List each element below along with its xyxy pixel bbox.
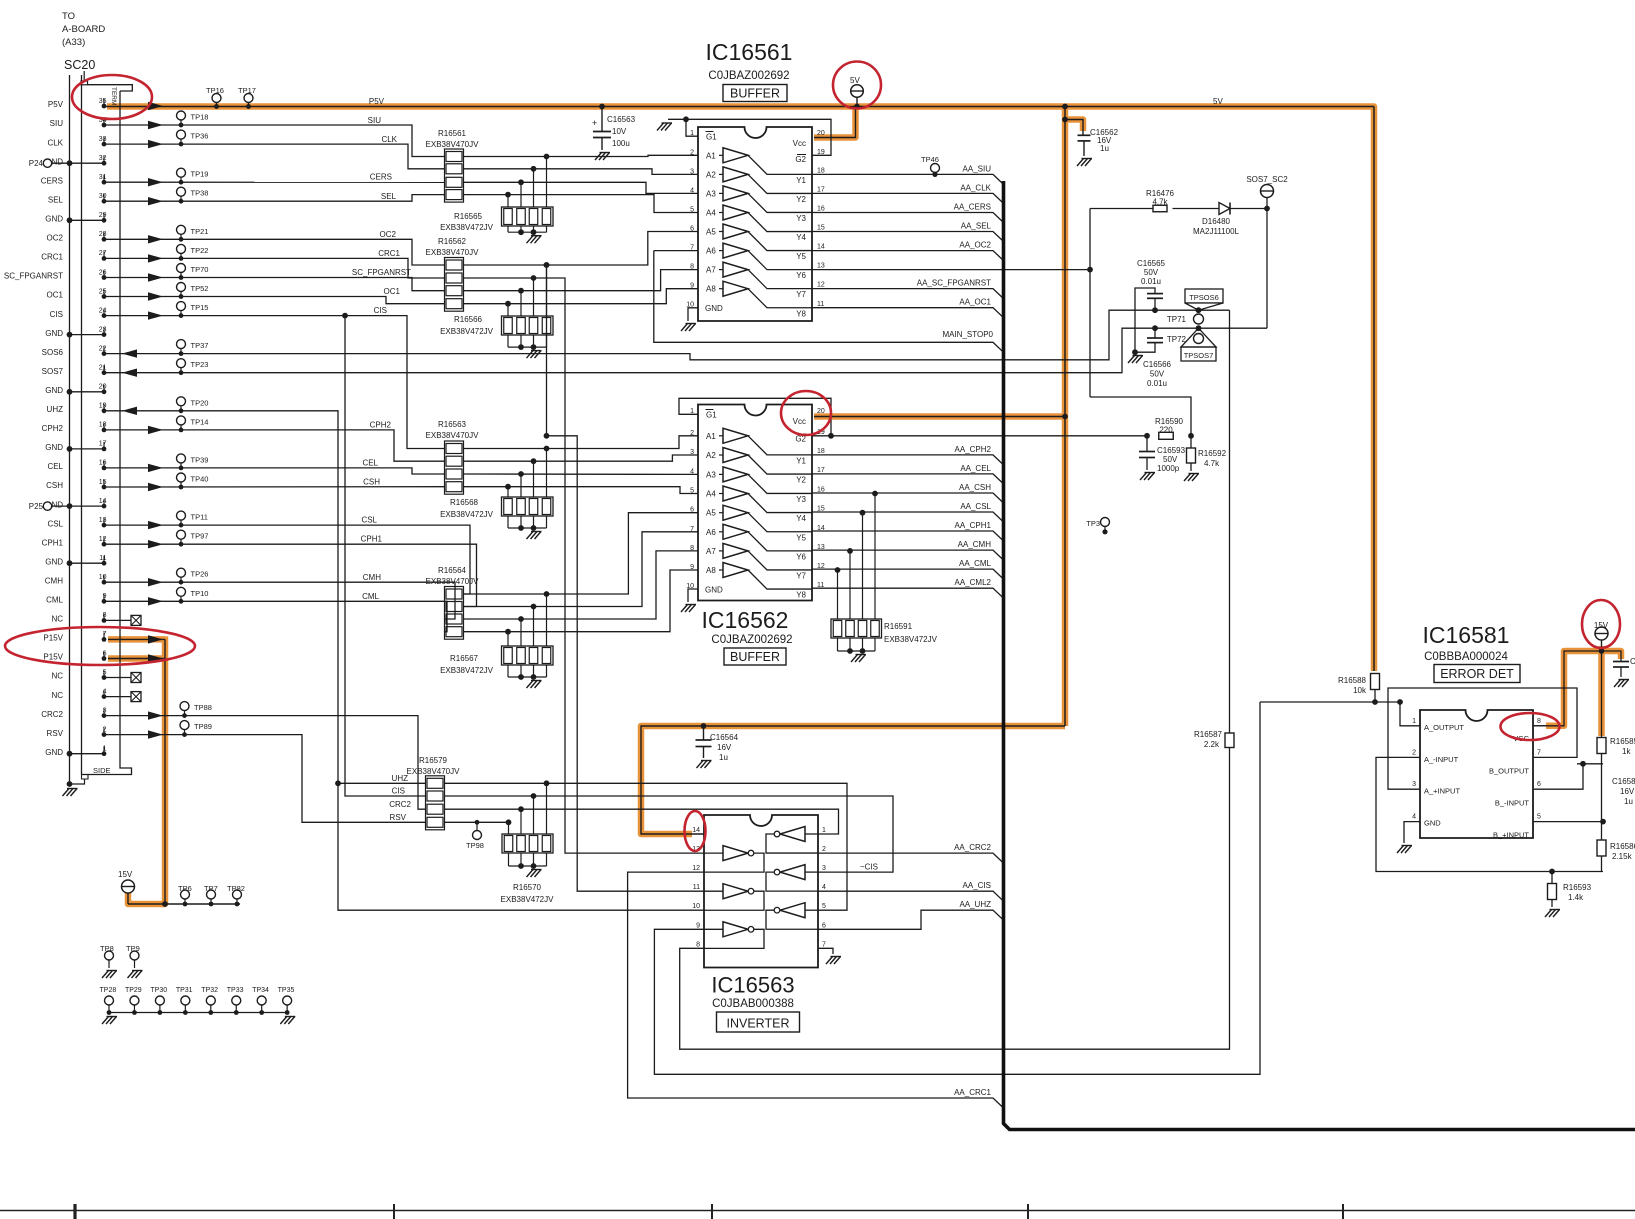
capacitor C16584 top right: [1602, 651, 1622, 662]
svg-text:TPSOS7: TPSOS7: [1184, 351, 1214, 360]
svg-text:26: 26: [99, 269, 107, 276]
svg-text:22: 22: [99, 345, 107, 352]
svg-text:12: 12: [692, 865, 700, 872]
svg-text:15: 15: [817, 225, 825, 232]
svg-text:AA_SC_FPGANRST: AA_SC_FPGANRST: [917, 279, 991, 288]
wire CPH1: [104, 544, 477, 606]
test point TP28: [105, 996, 114, 1005]
resistor R16586: [1601, 822, 1603, 840]
IC16563 pin7 ground: [818, 948, 833, 954]
svg-text:G1: G1: [706, 411, 717, 420]
test point TP72: [1194, 334, 1204, 344]
svg-text:8: 8: [696, 941, 700, 948]
svg-text:CML: CML: [362, 592, 379, 601]
svg-text:TP11: TP11: [191, 513, 208, 522]
svg-text:B_+INPUT: B_+INPUT: [1493, 831, 1529, 840]
arrow: [148, 292, 163, 300]
resistor network R16568: [505, 484, 511, 490]
svg-text:18: 18: [817, 448, 825, 455]
svg-text:Y6: Y6: [796, 271, 806, 280]
svg-text:Vcc: Vcc: [793, 417, 806, 426]
svg-text:TP21: TP21: [191, 227, 209, 236]
wire gnd bus tap: [70, 753, 105, 755]
wire CSL: [104, 525, 470, 594]
wire RSV: [104, 735, 426, 823]
resistor network R16567: [505, 629, 511, 635]
test point TP8: [105, 951, 114, 960]
wire inverter pin10 out: [335, 780, 341, 786]
test point TP34: [257, 996, 266, 1005]
svg-text:AA_CPH2: AA_CPH2: [955, 445, 992, 454]
wire CRC1: [104, 258, 445, 278]
wire gnd bus tap: [70, 448, 105, 450]
svg-text:CMH: CMH: [45, 576, 63, 585]
diode D16480: [1173, 208, 1220, 210]
test point TP15: [177, 302, 186, 311]
svg-text:1u: 1u: [719, 753, 728, 762]
svg-text:R16561: R16561: [438, 129, 467, 138]
svg-text:CPH1: CPH1: [361, 535, 383, 544]
svg-text:OC1: OC1: [47, 291, 64, 300]
svg-text:AA_CEL: AA_CEL: [960, 464, 991, 473]
svg-text:Y4: Y4: [796, 233, 806, 242]
wire B output row: [1577, 763, 1603, 765]
test point TP89: [180, 721, 189, 730]
svg-text:EXB38V472JV: EXB38V472JV: [440, 327, 494, 336]
test point TP36: [177, 130, 186, 139]
wire gnd bus tap: [70, 162, 105, 164]
svg-text:A3: A3: [706, 189, 716, 198]
svg-text:17: 17: [817, 467, 825, 474]
svg-text:GND: GND: [45, 557, 63, 566]
svg-text:A4: A4: [706, 209, 716, 218]
svg-text:A3: A3: [706, 470, 716, 479]
svg-text:A8: A8: [706, 566, 716, 575]
svg-text:R16566: R16566: [454, 315, 483, 324]
svg-text:SIU: SIU: [368, 116, 382, 125]
svg-text:TP9: TP9: [126, 944, 140, 953]
svg-text:C16565: C16565: [1137, 259, 1166, 268]
svg-text:7: 7: [822, 941, 826, 948]
NC termination: [104, 696, 131, 698]
connector P24: [43, 159, 51, 167]
svg-text:4: 4: [822, 884, 826, 891]
svg-text:AA_CRC1: AA_CRC1: [954, 1088, 991, 1097]
wire AA_SEL: [812, 232, 1004, 242]
svg-text:TP70: TP70: [191, 265, 209, 274]
arrow: [122, 349, 137, 357]
wire OC1: [104, 297, 445, 304]
ground R16567: [527, 681, 542, 689]
svg-text:4: 4: [690, 187, 694, 194]
svg-text:SC_FPGANRST: SC_FPGANRST: [352, 268, 411, 277]
svg-text:A6: A6: [706, 247, 716, 256]
svg-text:TP88: TP88: [194, 703, 212, 712]
arrow: [148, 140, 163, 148]
svg-text:TP89: TP89: [194, 722, 212, 731]
wire G2 to R16590: [831, 435, 1147, 437]
test point TP10: [177, 587, 186, 596]
svg-text:AA_CML2: AA_CML2: [955, 578, 992, 587]
arrow: [148, 464, 163, 472]
wire CRC2: [104, 716, 426, 810]
svg-text:TP18: TP18: [191, 113, 209, 122]
svg-text:RSV: RSV: [47, 729, 64, 738]
wire AA_OC2: [812, 251, 1004, 261]
svg-text:TP14: TP14: [191, 417, 209, 426]
svg-text:3: 3: [1412, 781, 1416, 788]
test point TP35: [283, 996, 292, 1005]
resistor R16590: [1144, 433, 1150, 439]
svg-text:SIU: SIU: [50, 119, 64, 128]
wire error det feedback line: [1260, 701, 1400, 703]
svg-text:5: 5: [1537, 814, 1541, 821]
svg-text:A2: A2: [706, 451, 716, 460]
svg-text:Y5: Y5: [796, 533, 806, 542]
wire CMH: [104, 582, 455, 619]
svg-text:28: 28: [99, 231, 107, 238]
svg-text:TP38: TP38: [191, 189, 209, 198]
svg-text:MAIN_STOP0: MAIN_STOP0: [942, 330, 993, 339]
wire to pin1: [1400, 702, 1420, 726]
svg-text:C0JBAZ002692: C0JBAZ002692: [711, 634, 792, 646]
wire gnd bus tap: [70, 505, 105, 507]
svg-text:32: 32: [99, 155, 107, 162]
svg-text:EXB38V470JV: EXB38V470JV: [426, 431, 480, 440]
svg-text:D16480: D16480: [1202, 217, 1231, 226]
svg-text:220: 220: [1159, 426, 1173, 435]
svg-text:Y8: Y8: [796, 591, 806, 600]
arrow: [148, 483, 163, 491]
test point TP82: [233, 890, 242, 899]
resistor network R16570: [506, 819, 512, 825]
svg-text:IC16563: IC16563: [711, 973, 794, 998]
svg-text:3: 3: [690, 449, 694, 456]
svg-text:R16592: R16592: [1198, 449, 1227, 458]
wire to IC16562 Vcc: [814, 416, 1065, 418]
svg-text:CEL: CEL: [362, 459, 378, 468]
wire AA_SC_FPGANRST: [812, 289, 1004, 299]
svg-text:SOS7_SC2: SOS7_SC2: [1246, 175, 1288, 184]
IC16563 inverters left column: [704, 852, 723, 854]
svg-text:0.01u: 0.01u: [1141, 277, 1161, 286]
wire SIU: [104, 125, 445, 157]
resistor R16593: [1549, 869, 1555, 875]
wire 15V rail: [128, 903, 240, 905]
IC16561 G1/G2 wiring: [686, 119, 698, 136]
svg-text:TP46: TP46: [921, 155, 939, 164]
wire MAIN_STOP0: [654, 250, 698, 252]
svg-text:AA_SEL: AA_SEL: [961, 222, 992, 231]
svg-text:GND: GND: [705, 586, 723, 595]
svg-text:B_OUTPUT: B_OUTPUT: [1489, 767, 1529, 776]
svg-text:8: 8: [1537, 718, 1541, 725]
wire AA_OC1: [812, 308, 1004, 318]
test point TP52: [177, 283, 186, 292]
svg-text:A1: A1: [706, 151, 716, 160]
svg-text:GND: GND: [45, 443, 63, 452]
svg-text:UHZ: UHZ: [47, 405, 64, 414]
svg-text:14: 14: [99, 498, 107, 505]
svg-text:SOS7: SOS7: [42, 367, 64, 376]
svg-text:4: 4: [1412, 814, 1416, 821]
capacitor C16562: [1082, 132, 1084, 136]
svg-text:3: 3: [822, 865, 826, 872]
power SOS7_SC2: [1264, 206, 1270, 212]
wire 5V to IC16561 Vcc highlight: [814, 107, 856, 138]
wire gnd bus tap: [70, 562, 105, 564]
test point TP37: [177, 340, 186, 349]
svg-text:8: 8: [690, 264, 694, 271]
resistor R16585: [1601, 651, 1603, 738]
svg-text:TP6: TP6: [178, 884, 192, 893]
wire CPH2: [104, 430, 445, 461]
svg-text:TERM: TERM: [110, 87, 117, 105]
svg-text:0.01u: 0.01u: [1147, 379, 1167, 388]
svg-text:CMH: CMH: [363, 573, 381, 582]
svg-text:CRC2: CRC2: [41, 710, 63, 719]
svg-text:1k: 1k: [1622, 747, 1631, 756]
resistor network R16565: [505, 192, 511, 198]
test point TP11: [177, 511, 186, 520]
wire AA_CSL: [812, 512, 1004, 522]
svg-text:A6: A6: [706, 528, 716, 537]
test point TP71: [1194, 314, 1204, 324]
svg-text:11: 11: [693, 884, 700, 891]
svg-text:10: 10: [99, 574, 107, 581]
svg-text:TP26: TP26: [191, 570, 209, 579]
svg-text:AA_CSH: AA_CSH: [959, 483, 991, 492]
svg-text:4: 4: [690, 468, 694, 475]
test point TP16: [212, 94, 221, 103]
frame bottom border: [0, 1210, 1635, 1212]
svg-text:Y3: Y3: [796, 495, 806, 504]
svg-text:CLK: CLK: [47, 138, 63, 147]
NC termination: [104, 619, 131, 621]
svg-text:EXB38V470JV: EXB38V470JV: [426, 577, 480, 586]
svg-text:EXB38V470JV: EXB38V470JV: [407, 767, 461, 776]
svg-text:AA_CML: AA_CML: [959, 559, 992, 568]
svg-text:15V: 15V: [118, 870, 133, 879]
svg-text:35: 35: [99, 98, 107, 105]
svg-text:A7: A7: [706, 547, 716, 556]
wire 5V rail: [104, 106, 1374, 108]
wire Y6 to R16476: [812, 269, 1090, 271]
IC16562 buffer triangles: [723, 428, 748, 443]
svg-text:AA_OC2: AA_OC2: [959, 241, 991, 250]
svg-text:TP71: TP71: [1167, 315, 1187, 324]
wire AA_CML2: [812, 588, 1004, 598]
svg-text:R16588: R16588: [1338, 676, 1367, 685]
IC16581 body: [1420, 710, 1533, 838]
svg-text:GND: GND: [1424, 819, 1441, 828]
test point TP14: [177, 416, 186, 425]
svg-text:13: 13: [99, 517, 107, 524]
test point TP21: [177, 225, 186, 234]
wire inverter pin8 to R16587: [680, 748, 1230, 1050]
svg-text:B_-INPUT: B_-INPUT: [1495, 799, 1530, 808]
NC termination: [104, 677, 131, 679]
wire 5V rail highlight: [107, 107, 1374, 672]
svg-text:6: 6: [690, 507, 694, 514]
svg-text:~CIS: ~CIS: [860, 863, 878, 872]
svg-text:TP7: TP7: [204, 884, 218, 893]
svg-text:CSH: CSH: [363, 478, 380, 487]
svg-text:2: 2: [690, 430, 694, 437]
svg-text:R16564: R16564: [438, 566, 467, 575]
svg-text:TP3: TP3: [1086, 519, 1100, 528]
wire pin4 GND: [1404, 822, 1420, 843]
svg-text:5: 5: [690, 207, 694, 214]
svg-text:29: 29: [99, 212, 107, 219]
capacitor C16564: [703, 726, 705, 740]
svg-text:C16593: C16593: [1157, 446, 1186, 455]
svg-text:R16565: R16565: [454, 212, 483, 221]
svg-text:SIDE: SIDE: [93, 766, 111, 775]
resistor R16592: [1190, 436, 1192, 448]
svg-text:TP19: TP19: [191, 170, 209, 179]
connector bottom tab: [82, 775, 89, 780]
svg-text:14: 14: [817, 244, 825, 251]
svg-text:P15V: P15V: [43, 653, 63, 662]
svg-text:16V: 16V: [717, 743, 732, 752]
svg-text:10V: 10V: [612, 127, 627, 136]
svg-text:TP10: TP10: [191, 589, 209, 598]
connector TERM rail: [88, 85, 133, 91]
svg-text:1: 1: [822, 827, 826, 834]
svg-text:CPH2: CPH2: [370, 420, 392, 429]
highlight ellipse IC16563 pin14: [685, 811, 706, 851]
svg-text:TPSOS6: TPSOS6: [1189, 293, 1219, 302]
svg-text:20: 20: [99, 384, 107, 391]
svg-text:10: 10: [692, 903, 700, 910]
wire Y6 bottom: [1090, 397, 1191, 436]
arrow: [148, 654, 163, 662]
test point TP18: [177, 111, 186, 120]
svg-text:SOS6: SOS6: [42, 348, 64, 357]
wire gnd bus tap: [70, 391, 105, 393]
svg-text:NC: NC: [51, 615, 63, 624]
wire AA_CPH1: [812, 531, 1004, 541]
wire gnd bus tap: [70, 334, 105, 336]
arrow: [122, 407, 137, 415]
svg-text:2.15k: 2.15k: [1612, 852, 1633, 861]
svg-text:RSV: RSV: [390, 813, 407, 822]
test point TP33: [232, 996, 241, 1005]
test point TP7: [207, 890, 216, 899]
svg-text:1.4k: 1.4k: [1568, 893, 1584, 902]
svg-text:CPH1: CPH1: [42, 538, 64, 547]
svg-text:GND: GND: [45, 748, 63, 757]
svg-text:CML: CML: [46, 596, 63, 605]
svg-text:CRC1: CRC1: [378, 249, 400, 258]
arrow: [148, 711, 163, 719]
wire AA_CSH: [812, 493, 1004, 503]
svg-text:TP29: TP29: [125, 987, 142, 994]
svg-text:Y1: Y1: [796, 176, 806, 185]
svg-text:TP36: TP36: [191, 132, 209, 141]
wire pin3 to pin7: [1388, 688, 1577, 789]
svg-text:TP72: TP72: [1167, 335, 1187, 344]
wire P15V pins to rail: [108, 638, 165, 640]
svg-text:16: 16: [817, 205, 825, 212]
test point TP19: [177, 168, 186, 177]
svg-text:23: 23: [99, 326, 107, 333]
wire AA_CMH: [812, 550, 1004, 560]
flag TPSOS7: [1181, 328, 1216, 347]
highlight ellipse VCC IC16581: [1501, 713, 1560, 740]
svg-text:19: 19: [99, 403, 107, 410]
wire OC2 to inverter pin11: [544, 262, 550, 268]
svg-text:P5V: P5V: [48, 100, 64, 109]
capacitor C16566: [1154, 328, 1156, 338]
svg-text:R16570: R16570: [513, 883, 542, 892]
arrow: [148, 102, 163, 110]
wire 5V branch down highlight: [1062, 107, 1069, 727]
svg-text:EXB38V472JV: EXB38V472JV: [440, 510, 494, 519]
wire OC2: [104, 239, 445, 265]
wire AA_CPH2: [812, 455, 1004, 465]
test point TP22: [177, 244, 186, 253]
IC16561 GND pin10: [688, 308, 698, 321]
svg-text:6: 6: [690, 226, 694, 233]
svg-text:R16563: R16563: [438, 420, 467, 429]
svg-text:1u: 1u: [1100, 144, 1109, 153]
wire AA_CIS: [818, 891, 1004, 901]
svg-text:2: 2: [1412, 749, 1416, 756]
resistor network R16591: [835, 567, 841, 573]
svg-text:C16564: C16564: [710, 733, 739, 742]
svg-text:TP16: TP16: [206, 86, 224, 95]
svg-text:P24: P24: [29, 159, 44, 168]
wire SOS7: [104, 328, 1267, 373]
svg-text:SC_FPGANRST: SC_FPGANRST: [4, 272, 63, 281]
wire TPSOS6 net down to R16587: [1229, 310, 1231, 733]
svg-text:9: 9: [690, 564, 694, 571]
wire SEL: [104, 195, 445, 202]
wire Y6 net vertical: [1089, 209, 1091, 398]
test points TP28-TP35: [109, 1012, 287, 1014]
svg-text:C0BBBA000024: C0BBBA000024: [1424, 651, 1508, 663]
svg-text:TP15: TP15: [191, 303, 209, 312]
wire pin6: [1533, 764, 1583, 789]
svg-text:EXB38V472JV: EXB38V472JV: [884, 635, 938, 644]
svg-text:TP31: TP31: [176, 987, 193, 994]
svg-text:A_+INPUT: A_+INPUT: [1424, 787, 1460, 796]
svg-text:A7: A7: [706, 266, 716, 275]
svg-text:CRC2: CRC2: [389, 800, 411, 809]
IC16562 G1/G2 wiring: [679, 398, 831, 436]
capacitor C16563: [601, 107, 603, 132]
svg-text:16V: 16V: [1620, 787, 1635, 796]
svg-text:21: 21: [99, 365, 107, 372]
svg-text:GND: GND: [45, 329, 63, 338]
svg-text:TP32: TP32: [201, 987, 218, 994]
highlight ellipse P15V: [5, 627, 195, 665]
wire pin8 VCC stub: [1533, 725, 1546, 727]
IC16563 inverters right column: [805, 833, 818, 835]
svg-text:24: 24: [99, 307, 107, 314]
wire CRC1 to inverter pin13: [464, 278, 705, 853]
test point TP97: [177, 530, 186, 539]
highlight ellipse 15V: [1582, 600, 1620, 648]
svg-text:9: 9: [696, 922, 700, 929]
wire AA_CRC1: [628, 872, 1004, 1108]
svg-text:NC: NC: [51, 672, 63, 681]
arrow: [148, 121, 163, 129]
svg-text:31: 31: [99, 174, 107, 181]
IC16562 body: [698, 405, 812, 601]
